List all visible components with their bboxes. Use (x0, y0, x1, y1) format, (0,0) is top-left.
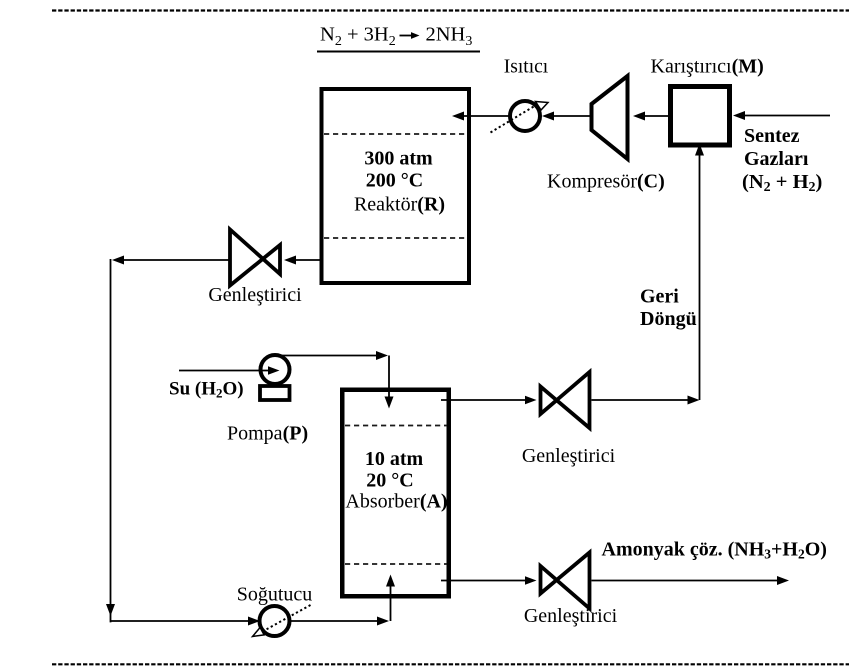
svg-text:2NH3: 2NH3 (426, 24, 473, 50)
wire: vertical down into absorber top (388, 356, 390, 400)
wire: recycle vertical (Geri Döngü) (699, 150, 701, 400)
heater dotted diagonal (491, 105, 538, 133)
svg-text:Sentez: Sentez (744, 125, 800, 147)
wire: heater to reactor (456, 115, 509, 117)
wire: ammonia product out (592, 580, 786, 582)
wire: absorber bottom right to expander 3 (441, 580, 529, 582)
wire: absorber top right to expander 2 (441, 399, 529, 401)
absorber internal dashed line upper (345, 425, 447, 427)
wire: compressor to heater (546, 115, 591, 117)
svg-text:Genleştirici: Genleştirici (208, 284, 302, 306)
wire: cooler to absorber bottom corner (291, 620, 385, 622)
svg-text:Pompa(P): Pompa(P) (227, 423, 308, 445)
wire: mixer to compressor (637, 115, 668, 117)
bottom border dashed line (52, 663, 849, 665)
wire: bottom horizontal to cooler (111, 620, 253, 622)
cooler circle (260, 606, 290, 636)
svg-text:Reaktör(R): Reaktör(R) (354, 194, 445, 216)
wire: vertical up into absorber bottom (390, 584, 392, 621)
top border dashed line (52, 9, 849, 11)
svg-text:Isıtıcı: Isıtıcı (504, 56, 549, 77)
reactor internal dashed line lower (324, 237, 467, 239)
svg-text:Geri: Geri (640, 286, 679, 308)
heater circle (510, 101, 540, 131)
wire: expander1 to left corner (116, 259, 229, 261)
pump base rect (260, 386, 290, 400)
svg-text:Su (H2O): Su (H2O) (169, 379, 244, 401)
svg-text:200 °C: 200 °C (366, 170, 423, 192)
wire: left vertical down (110, 259, 112, 622)
svg-text:Gazları: Gazları (744, 148, 809, 170)
svg-text:300 atm: 300 atm (364, 148, 433, 170)
reactor internal dashed line upper (324, 133, 467, 135)
wire: reactor to expander 1 (288, 259, 322, 261)
svg-text:Soğutucu: Soğutucu (237, 584, 313, 606)
cooler open arrowhead (253, 628, 265, 637)
svg-text:10 atm: 10 atm (365, 448, 424, 470)
svg-text:Genleştirici: Genleştirici (524, 605, 618, 627)
svg-text:Karıştırıcı(M): Karıştırıcı(M) (651, 56, 764, 78)
expander 1 valve (left big triangle) (230, 230, 263, 286)
equation arrow (400, 35, 414, 37)
equation underline (317, 51, 480, 53)
heater open arrowhead (536, 102, 549, 111)
wire: pump top to absorber top (277, 355, 384, 357)
svg-text:N2 + 3H2: N2 + 3H2 (320, 24, 396, 50)
expander 3 valve (541, 566, 557, 594)
absorber A box (342, 390, 449, 597)
absorber internal dashed line lower (345, 563, 447, 565)
wire: expander 2 to recycle corner (592, 399, 696, 401)
water inlet wire Su (H2O) (179, 370, 271, 372)
reactor R box (322, 89, 470, 283)
svg-text:Döngü: Döngü (640, 308, 697, 330)
svg-text:Kompresör(C): Kompresör(C) (547, 171, 665, 193)
svg-text:Absorber(A): Absorber(A) (345, 491, 447, 513)
svg-text:20 °C: 20 °C (366, 470, 413, 492)
wire: sentez gas inlet to mixer (737, 115, 830, 117)
pump P circle (261, 355, 290, 384)
compressor C trapezoid (592, 76, 628, 159)
svg-text:Genleştirici: Genleştirici (522, 445, 616, 467)
mixer M box (671, 87, 730, 146)
cooler dotted diagonal (258, 605, 311, 634)
svg-text:Amonyak çöz. (NH3+H2O): Amonyak çöz. (NH3+H2O) (602, 539, 827, 562)
expander 2 valve (right big triangle) (541, 387, 557, 415)
